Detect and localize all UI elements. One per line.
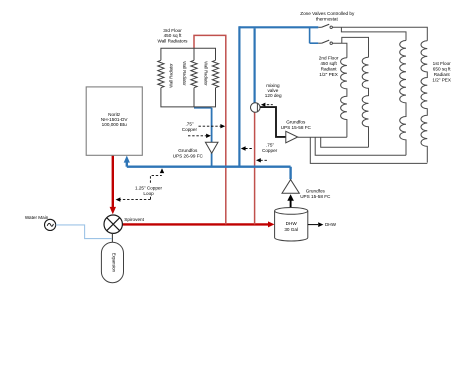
wire spirovent to expansion tank <box>111 233 113 242</box>
wire red mixing valve hot feed <box>254 112 256 224</box>
expansion tank <box>101 242 123 283</box>
svg-text:1/2” PEX: 1/2” PEX <box>319 72 338 77</box>
svg-text:Copper: Copper <box>182 127 198 132</box>
svg-text:.75”: .75” <box>266 143 274 148</box>
svg-text:Spirovent: Spirovent <box>124 217 144 222</box>
svg-text:Wall Radiator: Wall Radiator <box>203 61 208 86</box>
wire DHW out <box>308 224 318 226</box>
coil 2nd floor loop A <box>341 58 347 138</box>
svg-text:Copper: Copper <box>262 148 278 153</box>
svg-text:120 deg: 120 deg <box>265 93 282 98</box>
boiler Noritz NH-1501-DV <box>86 87 142 155</box>
wire blue return main (top) <box>239 26 318 28</box>
svg-text:Water Main: Water Main <box>25 215 49 220</box>
pump Grundfos UPS 15-58 FC (DHW) <box>282 180 299 194</box>
wire blue boiler inlet <box>126 162 128 167</box>
DHW tank 30 Gal <box>275 211 308 241</box>
svg-text:.75”: .75” <box>186 122 194 127</box>
zone valve switch 2 <box>318 42 321 44</box>
leader to mixing valve <box>267 104 273 106</box>
pump Grundfos UPS 26-99 FC <box>205 142 218 153</box>
svg-text:UPS 15-58 FC: UPS 15-58 FC <box>300 194 331 199</box>
wall radiator 1 <box>158 60 164 87</box>
wire pump 15-58 output manifold <box>298 136 347 138</box>
svg-text:valve: valve <box>267 88 278 93</box>
wire DHW tank to pump arrow <box>290 200 292 209</box>
svg-text:450 sqft: 450 sqft <box>320 61 337 66</box>
water main <box>45 219 56 230</box>
wall radiator 2 <box>191 60 197 87</box>
wire blue return riser left <box>238 26 240 167</box>
svg-text:2nd Floor: 2nd Floor <box>319 55 339 60</box>
wire zone1 to coil4 top <box>332 27 427 41</box>
wire zone2 to coil1 top <box>332 43 347 58</box>
svg-text:1st Floor: 1st Floor <box>433 61 452 66</box>
svg-text:UPS 26-99 FC: UPS 26-99 FC <box>173 153 204 158</box>
zone valve switch 1 <box>318 26 321 28</box>
coil 1st floor loop A <box>400 41 406 156</box>
svg-text:DHW: DHW <box>286 221 298 226</box>
wire red 3rd-floor supply top <box>194 35 227 48</box>
svg-text:Loop: Loop <box>143 191 154 196</box>
wire red supply main <box>122 223 269 225</box>
svg-text:Radiant: Radiant <box>321 67 338 72</box>
svg-text:Grundfos: Grundfos <box>306 188 326 193</box>
wire blue 3rd-floor return <box>194 108 212 143</box>
wire zone2 branch to coil2 top <box>342 37 369 57</box>
mixing valve <box>251 103 261 113</box>
svg-text:Wall Radiators: Wall Radiators <box>157 38 188 43</box>
wire blue riser to mixing valve <box>254 28 256 102</box>
pump Grundfos UPS 15-58 FC (radiant) <box>286 131 298 143</box>
coil 1st floor loop B <box>421 41 427 163</box>
svg-text:30 Gal: 30 Gal <box>284 227 298 232</box>
svg-text:Grundfos: Grundfos <box>286 119 306 124</box>
svg-text:100,000 Btu: 100,000 Btu <box>102 122 127 127</box>
spirovent air separator <box>104 215 122 233</box>
wire blue branch to zone valve 2 <box>310 27 319 43</box>
wire mixing valve output <box>260 107 286 137</box>
svg-text:1.25” Copper: 1.25” Copper <box>135 186 163 191</box>
wire zone1 branch to coil3 top <box>341 27 406 40</box>
svg-text:Wall Radiator: Wall Radiator <box>182 61 187 86</box>
wire water main feed <box>56 225 112 239</box>
coil 2nd floor loop B <box>362 57 368 147</box>
wall radiator 3 <box>212 60 218 87</box>
svg-text:Radiant: Radiant <box>434 72 451 77</box>
wall radiator manifold box <box>161 48 216 107</box>
wire red boiler outlet <box>112 155 114 207</box>
svg-text:650 sq ft: 650 sq ft <box>433 67 452 72</box>
wire red 3rd-floor supply riser <box>225 35 227 224</box>
svg-text:thermostat: thermostat <box>316 16 339 21</box>
svg-text:Wall Radiator: Wall Radiator <box>168 63 173 88</box>
svg-text:1/2” PEX: 1/2” PEX <box>432 78 451 83</box>
svg-text:DHW: DHW <box>325 222 337 227</box>
wire blue return main (bottom) <box>127 167 291 180</box>
svg-text:Grundfos: Grundfos <box>178 148 198 153</box>
svg-text:Expansion: Expansion <box>112 253 117 273</box>
svg-text:UPS 15-58 FC: UPS 15-58 FC <box>281 125 312 130</box>
